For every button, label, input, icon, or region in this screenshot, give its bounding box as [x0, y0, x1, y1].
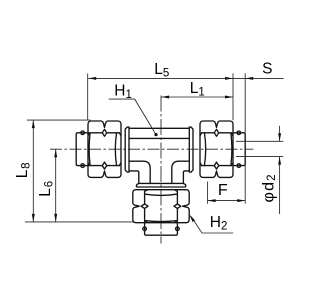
dimension phi-d2 extensions — [246, 141, 283, 156]
bottom nut H2 — [133, 190, 189, 223]
right flange — [189, 127, 193, 172]
dimension F extensions — [207, 182, 209, 204]
dimension bottom extension baseline — [25, 221, 135, 223]
centerline main axis — [50, 148, 253, 150]
left sleeve — [76, 131, 88, 167]
dimension line L1 — [161, 96, 233, 98]
centerline branch axis — [160, 96, 162, 244]
bottom sleeve — [143, 223, 179, 235]
dimension line L5 and S — [88, 77, 283, 79]
dimension S extension at sleeve end — [244, 73, 246, 203]
svg-text:S: S — [262, 61, 272, 78]
left nut — [88, 121, 121, 177]
dimension L5 extension left — [87, 73, 89, 120]
body run outline — [129, 128, 189, 183]
dimension line phi-d2 — [279, 126, 281, 214]
dimension line F — [208, 200, 246, 202]
left flange — [125, 127, 129, 172]
dimension line L6 — [55, 149, 57, 222]
right tube stub d2 — [236, 141, 245, 156]
right sleeve — [233, 131, 245, 167]
dimension L8 top extension — [27, 119, 91, 121]
dimension S extension at nut face — [232, 73, 234, 120]
right nut — [200, 121, 233, 177]
branch flange — [136, 183, 185, 187]
dimension line L8 — [32, 120, 34, 222]
svg-text:F: F — [218, 182, 228, 199]
body bore lines — [129, 138, 189, 183]
